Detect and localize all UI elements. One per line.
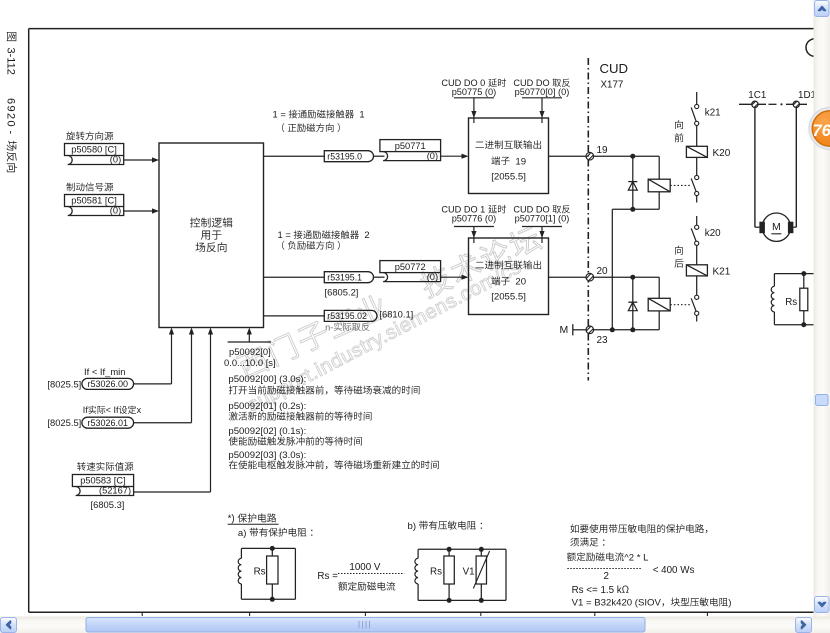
- wire control block to r53195.02: [264, 315, 325, 317]
- horizontal scrollbar right button: [796, 618, 812, 633]
- svg-text:r53026.00: r53026.00: [88, 379, 129, 389]
- wire r53026.00 to block: [134, 383, 172, 385]
- label 旋转方向源: [66, 132, 75, 141]
- svg-text:1000 V: 1000 V: [349, 562, 381, 573]
- svg-text:K20: K20: [713, 148, 731, 159]
- wire block 19 to terminal 19: [549, 155, 587, 157]
- wire control block to r53195.0: [264, 155, 325, 157]
- vertical scrollbar thumb: [816, 395, 829, 406]
- terminal 1D1 screw: [788, 96, 804, 112]
- svg-text:(0): (0): [427, 272, 438, 282]
- horizontal scrollbar track: [0, 617, 830, 633]
- floating badge 76: [809, 108, 830, 150]
- relay coil 2 (drives K21 contact): [648, 298, 670, 311]
- svg-text:1 =: 1 =: [278, 229, 294, 240]
- svg-text:p50775 (0): p50775 (0): [452, 87, 496, 97]
- field inductor L1: [773, 274, 775, 287]
- connector p50772 (0): [380, 261, 441, 273]
- field inductor (circuit b): [417, 549, 419, 558]
- CUD boundary dash-dot line X177: [587, 58, 589, 381]
- svg-text:1D1: 1D1: [798, 90, 816, 101]
- terminal 23 screw: [582, 322, 598, 338]
- connector p50580 [C] (0): [65, 144, 124, 156]
- svg-text:p50772: p50772: [395, 262, 426, 272]
- junction node circuit1 return: [610, 327, 615, 332]
- protection resistor Rs (circuit a): [271, 548, 273, 556]
- watermark diagonal text: [235, 223, 543, 380]
- frame bottom tick marks: [141, 612, 143, 616]
- svg-text:[2055.5]: [2055.5]: [491, 171, 526, 182]
- mechanical link coil1 to K20 contact: [670, 184, 690, 186]
- field circuit top wire: [774, 273, 813, 275]
- junction node Rs top: [801, 271, 806, 276]
- branch 向前 supply stub: [696, 92, 698, 105]
- connector r53026.01: [82, 417, 134, 428]
- branch 向后 supply stub: [696, 216, 698, 225]
- page title (vertical): 图 3-112 6920 - 场反向: [5, 32, 17, 172]
- svg-text:V1 = B32k420 (SIOV: V1 = B32k420 (SIOV: [572, 598, 662, 609]
- wire stubs into motor brushes: [755, 226, 760, 228]
- svg-text:1 =: 1 =: [273, 109, 289, 120]
- svg-text:2: 2: [359, 229, 369, 240]
- svg-text:M: M: [560, 324, 569, 336]
- resistor Rs (field discharge): [803, 274, 805, 289]
- svg-text:1: 1: [354, 109, 364, 120]
- connector r53195.1: [324, 272, 373, 283]
- svg-text:p50092[01] (0.2s):: p50092[01] (0.2s):: [228, 401, 306, 412]
- svg-text:p50771: p50771: [395, 141, 426, 151]
- svg-text:p50092[03] (3.0s):: p50092[03] (3.0s):: [228, 450, 306, 461]
- terminal 20 screw: [582, 269, 598, 285]
- wire terminal 20 to relay circuit 2: [593, 276, 659, 278]
- field inductor (circuit a): [240, 548, 242, 558]
- arrow r53026.01 into control block: [191, 335, 193, 423]
- connector r53195.02: [324, 310, 377, 321]
- connector p50583 [C] (52167): [72, 475, 133, 487]
- svg-text:p50580 [C]: p50580 [C]: [71, 145, 117, 155]
- svg-text:< If: < If: [106, 405, 119, 415]
- svg-text:1C1: 1C1: [748, 90, 766, 101]
- svg-text:3-112: 3-112: [5, 48, 17, 75]
- wire block 20 to terminal 20: [549, 276, 587, 278]
- svg-text:(0): (0): [110, 155, 121, 165]
- freewheel diode V2: [632, 156, 634, 209]
- svg-text:If < If_min: If < If_min: [84, 366, 125, 377]
- contactor coil K20: [686, 146, 707, 157]
- svg-text:r53195.02: r53195.02: [327, 311, 367, 321]
- wire control block to r53195.1: [264, 276, 325, 278]
- wire K20 coil to relay contact 1: [696, 157, 698, 175]
- svg-text:p50092[0]: p50092[0]: [229, 346, 271, 357]
- svg-text:19: 19: [510, 156, 526, 167]
- protection circuit a loop: [241, 547, 295, 549]
- svg-text:[6805.2]: [6805.2]: [325, 286, 359, 297]
- svg-text:X177: X177: [601, 80, 624, 91]
- varistor V1 (circuit b): [480, 549, 482, 556]
- svg-text:-: -: [5, 131, 17, 135]
- svg-text:b): b): [408, 521, 419, 532]
- svg-text:If: If: [83, 405, 89, 415]
- wire down to relay coil 2: [658, 277, 660, 298]
- svg-text:76: 76: [813, 122, 830, 140]
- terminal 1C1 screw: [747, 96, 763, 112]
- protection circuit b loop: [418, 548, 506, 550]
- connector p50771 (0): [380, 140, 441, 152]
- svg-text:p50770[1] (0): p50770[1] (0): [515, 214, 570, 224]
- diagram frame border: [29, 28, 814, 30]
- parameter p50092[0] tee: [228, 341, 271, 343]
- svg-text:CUD: CUD: [600, 61, 629, 76]
- svg-text:2: 2: [604, 571, 609, 582]
- wire p50583 to control block: [134, 491, 211, 493]
- svg-text:[6810.1]: [6810.1]: [379, 309, 413, 320]
- motor M1 (DC armature): [762, 213, 790, 241]
- label 向前 (forward): [675, 120, 683, 129]
- svg-text:[2055.5]: [2055.5]: [491, 292, 526, 303]
- vertical scrollbar down button: [815, 597, 830, 613]
- svg-text:p50092[02] (0.1s):: p50092[02] (0.1s):: [228, 426, 306, 437]
- vertical scrollbar up button: [815, 1, 830, 17]
- svg-text:[6805.3]: [6805.3]: [91, 499, 125, 510]
- svg-text:a): a): [238, 528, 249, 539]
- svg-text:x: x: [137, 405, 142, 415]
- wire circuit 1 return to M rail: [611, 209, 613, 329]
- wire r53026.01 to block: [134, 422, 192, 424]
- label 向后 (reverse): [675, 246, 683, 255]
- svg-text:Rs: Rs: [430, 566, 442, 577]
- svg-text:< 400 Ws: < 400 Ws: [653, 565, 695, 576]
- vertical scrollbar track: [814, 0, 830, 617]
- field circuit bottom wire: [774, 324, 813, 326]
- junction nodes circuit a: [270, 546, 275, 551]
- wire K21 coil to relay contact 2: [696, 276, 698, 296]
- svg-text:p50581 [C]: p50581 [C]: [71, 196, 117, 206]
- parameter tee p50776 into block 20: [454, 226, 494, 228]
- control logic block U1: [159, 143, 264, 328]
- wire relay coil 2 return to M rail: [658, 311, 660, 330]
- svg-text:[8025.5]: [8025.5]: [47, 378, 81, 389]
- auxiliary contact k21 (NC interlock): [695, 104, 699, 108]
- label 制动信号源: [66, 183, 74, 192]
- wire terminal 19 to relay circuit: [593, 155, 659, 157]
- svg-text:Rs =: Rs =: [317, 571, 338, 582]
- junction node diode 2 bottom: [630, 327, 635, 332]
- binary interconnector output block terminal 20 (U3): [469, 238, 549, 315]
- svg-text:19: 19: [597, 145, 609, 156]
- contactor coil K21: [686, 265, 707, 276]
- svg-text:p50770[0] (0): p50770[0] (0): [515, 87, 570, 97]
- junction node diode 1 top: [630, 154, 635, 159]
- parameter tee p50770[0] into block 19: [522, 97, 562, 99]
- junction nodes circuit b: [447, 547, 452, 552]
- M rail wire: [593, 329, 659, 331]
- label 转速实际值源: [77, 462, 86, 471]
- M rail end bar: [572, 324, 574, 335]
- svg-text:(0): (0): [110, 206, 121, 216]
- svg-text:n-: n-: [325, 322, 333, 332]
- connector r53026.00: [82, 378, 134, 389]
- svg-text:r53026.01: r53026.01: [88, 418, 129, 428]
- auxiliary contact k20 (NC interlock): [695, 225, 699, 229]
- wire r53195.0 to p50771: [374, 155, 385, 157]
- relay contact 2 (actuated by coil 2): [695, 295, 699, 299]
- svg-text:Rs: Rs: [254, 566, 266, 577]
- parameter tee p50770[1] into block 20: [522, 226, 562, 228]
- relay contact 1 (actuated by coil 1): [695, 175, 699, 179]
- svg-text:M: M: [772, 221, 781, 233]
- wire relay coil 1 return: [658, 192, 660, 210]
- wire down to relay coil 1: [658, 156, 660, 179]
- svg-text:p50583 [C]: p50583 [C]: [80, 476, 126, 486]
- armature supply line 1C1-1D1: [739, 103, 766, 105]
- note: varistor protection requirements: [570, 524, 578, 533]
- wire p50581 to control block: [124, 210, 152, 212]
- junction node Rs bottom: [801, 322, 806, 327]
- wire p50771 to binary output block 19: [441, 155, 462, 157]
- svg-text:(0): (0): [427, 151, 438, 161]
- svg-text:): ): [728, 598, 731, 609]
- svg-text:Rs <= 1.5 k: Rs <= 1.5 k: [572, 585, 622, 596]
- svg-text:^2 * L: ^2 * L: [624, 552, 649, 563]
- binary interconnector output block terminal 19 (U2): [469, 118, 549, 194]
- svg-text:23: 23: [597, 335, 609, 346]
- terminal 19 screw: [582, 148, 598, 164]
- svg-text:K21: K21: [713, 266, 731, 277]
- horizontal scrollbar left button: [1, 618, 17, 633]
- svg-text:20: 20: [510, 277, 526, 288]
- svg-text:20: 20: [597, 266, 609, 277]
- svg-text:*): *): [228, 514, 238, 525]
- wire 1C1 to motor brush: [754, 108, 756, 228]
- wire below relay contact 1: [696, 195, 698, 202]
- svg-text:p50776 (0): p50776 (0): [452, 214, 496, 224]
- junction node diode 2 top: [630, 275, 635, 280]
- freewheel diode V3: [632, 277, 634, 330]
- protection resistor Rs (circuit b): [448, 549, 450, 556]
- mechanical link coil2 to K21 contact: [670, 304, 690, 306]
- svg-text:0.0...10.0 [s]: 0.0...10.0 [s]: [224, 357, 276, 368]
- wire k20 to K21 contactor coil: [696, 245, 698, 265]
- wire p50772 to binary output block 20: [441, 276, 462, 278]
- svg-text:r53195.0: r53195.0: [327, 151, 362, 161]
- svg-text:k21: k21: [705, 107, 721, 118]
- junction node diode 1 bottom: [630, 207, 635, 212]
- relay coil 1 (drives K20 contact): [648, 179, 670, 192]
- cut-off circle symbol at right edge: [806, 39, 824, 57]
- wire k21 to K20 contactor coil: [696, 125, 698, 146]
- svg-text:Rs: Rs: [785, 297, 797, 308]
- svg-text:6920: 6920: [5, 98, 17, 128]
- connector r53195.0: [324, 151, 373, 162]
- parameter tee p50775 into block 19: [454, 97, 494, 99]
- svg-text:(52167): (52167): [99, 486, 131, 496]
- svg-text:r53195.1: r53195.1: [327, 272, 362, 282]
- connector p50581 [C] (0): [65, 195, 124, 207]
- svg-text:p50092[00] (3.0s):: p50092[00] (3.0s):: [228, 374, 306, 385]
- svg-text:V1: V1: [463, 566, 475, 577]
- horizontal scrollbar thumb: [86, 618, 645, 633]
- svg-text:k20: k20: [705, 228, 721, 239]
- wire below relay contact 2: [696, 315, 698, 321]
- arrow r53026.00 into control block: [171, 335, 173, 384]
- wire r53195.1 to p50772: [374, 276, 385, 278]
- wire M bar to terminal 23: [573, 329, 586, 331]
- wire 1D1 to motor brush: [795, 108, 797, 228]
- svg-text:[8025.5]: [8025.5]: [47, 417, 81, 428]
- wire p50580 to control block: [124, 159, 152, 161]
